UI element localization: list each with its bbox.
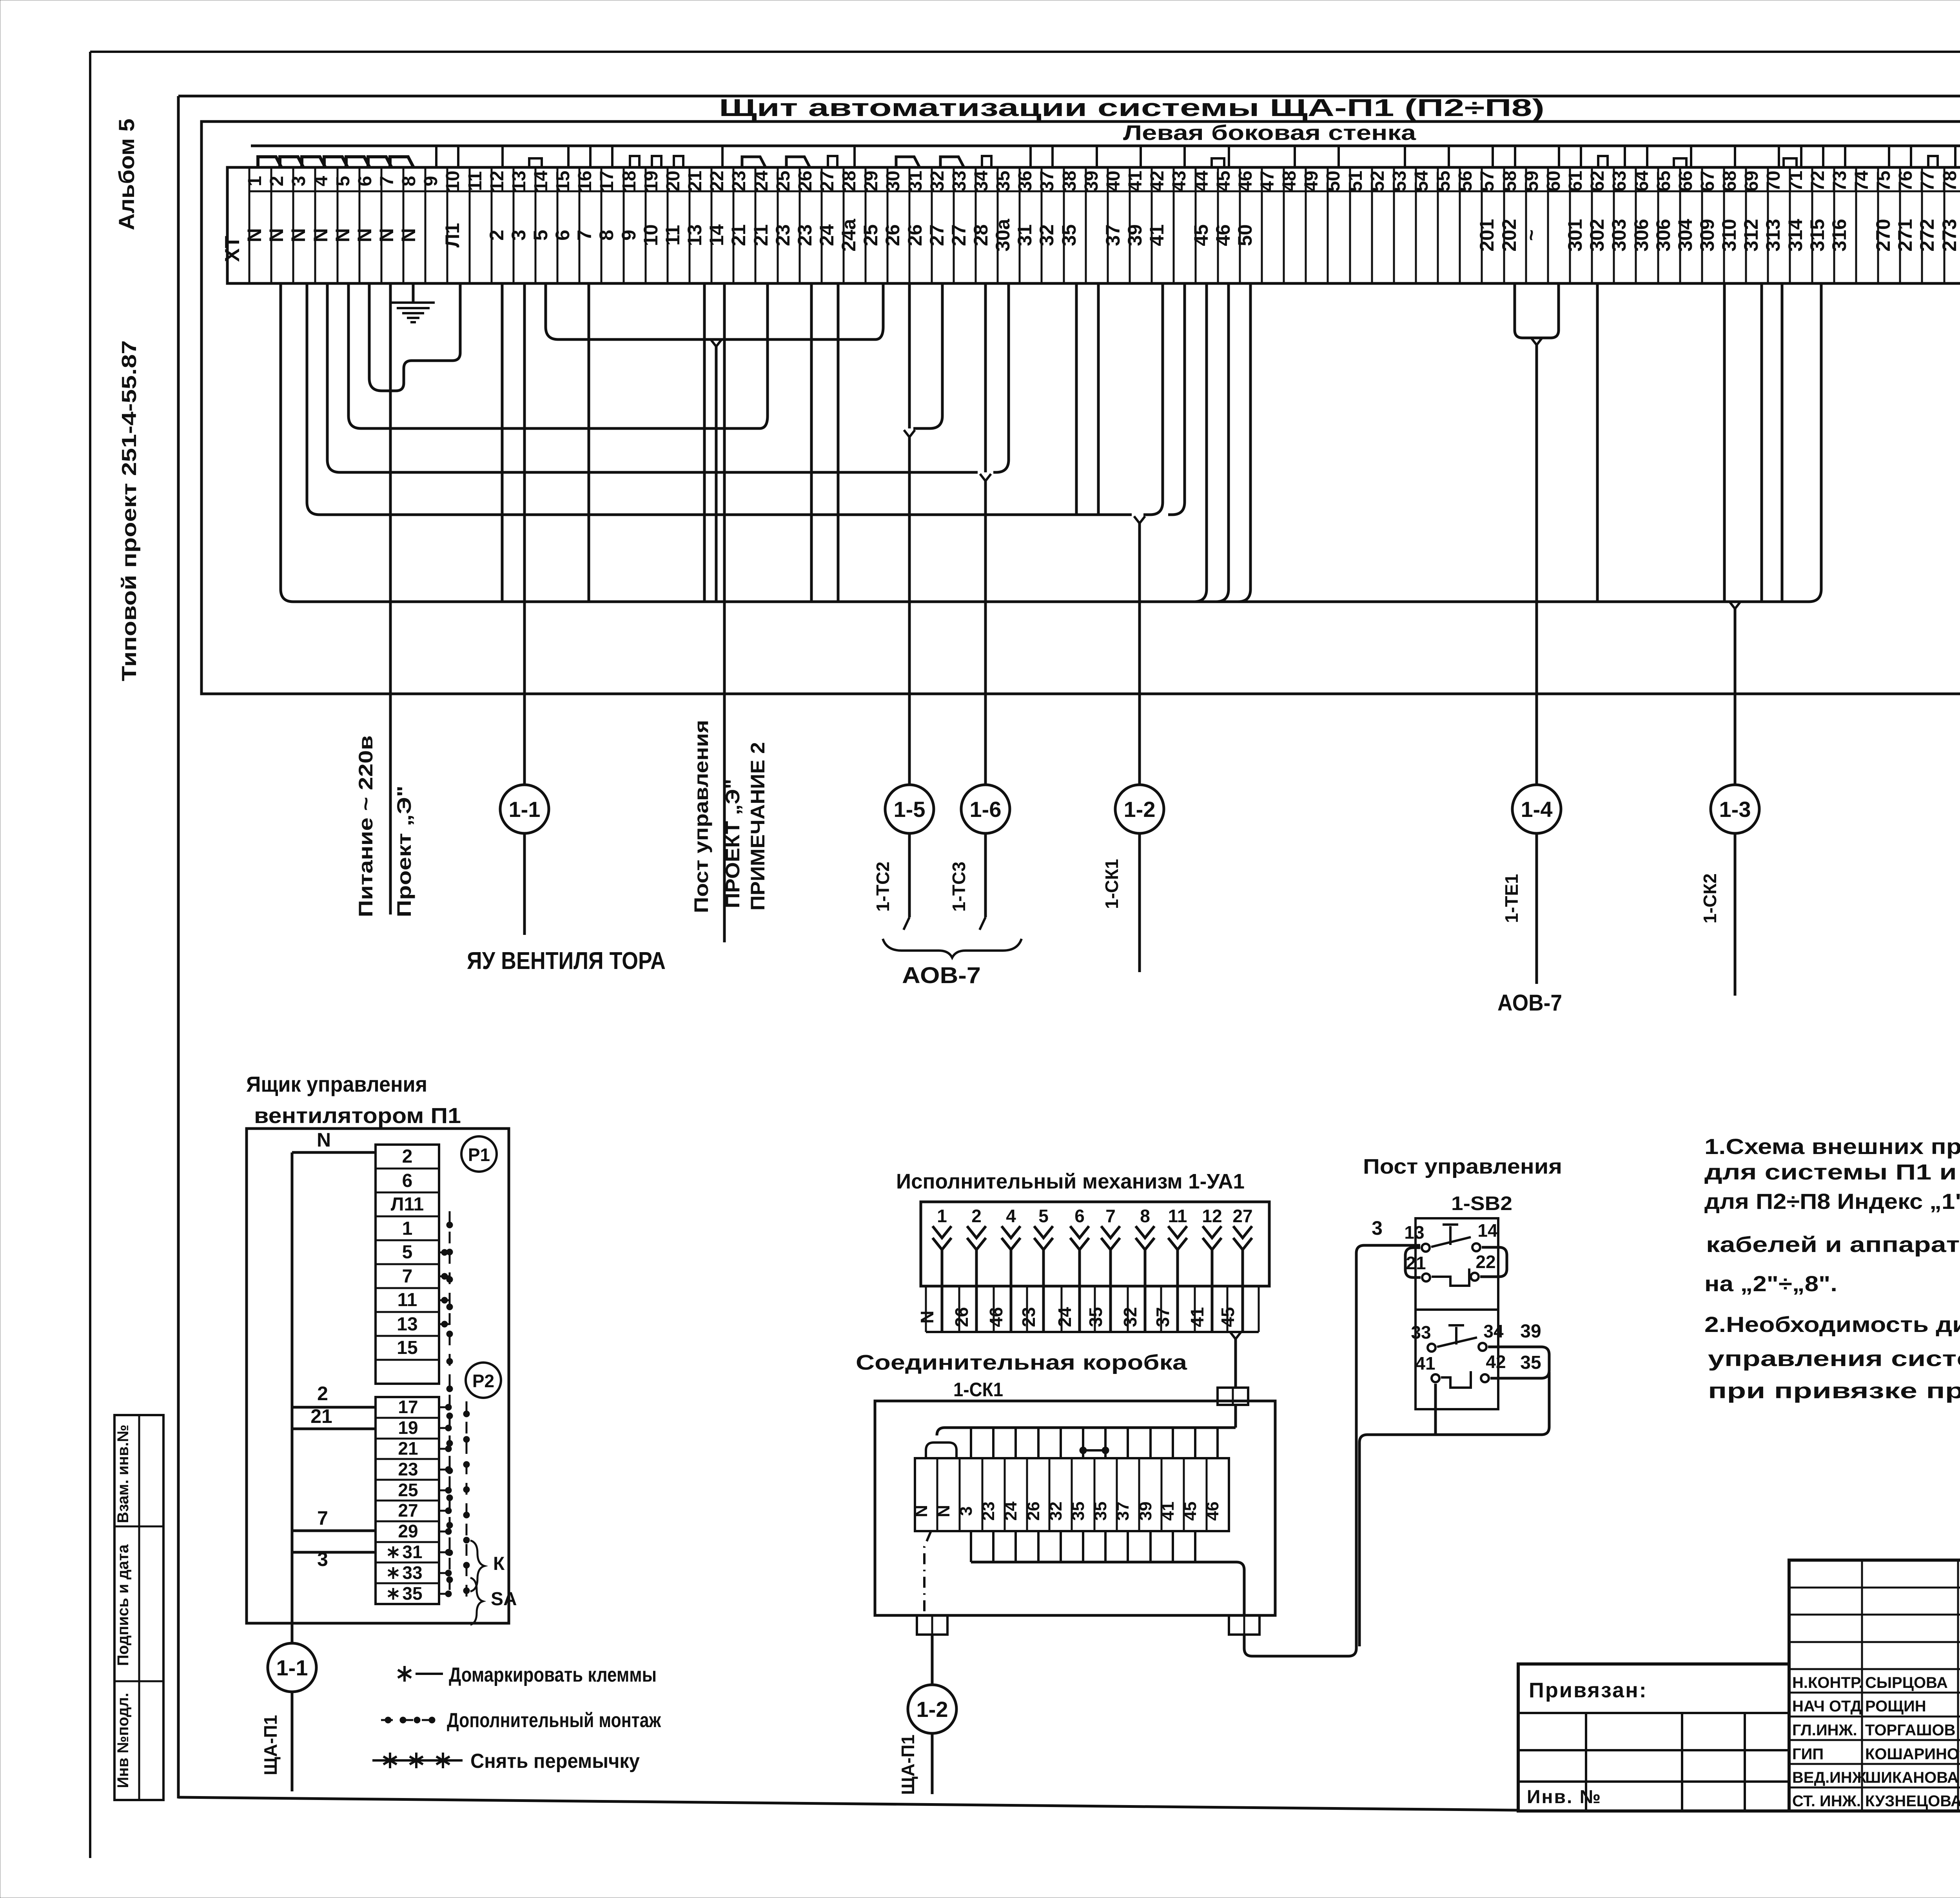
svg-text:Л11: Л11 <box>391 1194 424 1215</box>
brace and АОВ-7 under 1-ТС2/1-ТС3 <box>883 939 1022 958</box>
svg-text:27: 27 <box>948 224 970 246</box>
terminal XT:69 net 312 <box>1740 167 1768 283</box>
svg-text:59: 59 <box>1521 171 1542 191</box>
svg-text:11: 11 <box>662 225 684 246</box>
terminal XT:48 <box>1279 167 1306 283</box>
svg-text:26: 26 <box>951 1307 972 1327</box>
jumper links above terminals 1-8 <box>258 157 414 167</box>
svg-text:1-6: 1-6 <box>970 797 1002 822</box>
terminal XT:37 net 32 <box>1036 167 1064 283</box>
svg-text:N: N <box>376 228 397 242</box>
terminal XT:45 net 46 <box>1212 167 1240 283</box>
terminal XT:6 net N <box>354 167 381 283</box>
terminal XT:21 net 13 <box>684 167 711 283</box>
svg-text:270: 270 <box>1872 219 1894 251</box>
svg-text:~: ~ <box>1520 229 1542 241</box>
svg-text:13: 13 <box>509 171 530 191</box>
cable tails below circles <box>524 833 1735 996</box>
svg-text:N: N <box>354 228 376 242</box>
bus stubs to terminals <box>436 146 1960 167</box>
control cabinet box П1 <box>247 1129 509 1623</box>
terminal XT:28 net 24а <box>838 167 866 283</box>
cable circle 1-3 <box>1711 785 1759 833</box>
terminal XT:67 net 309 <box>1696 167 1724 283</box>
left margin stamp column (Взам.инв.№ / Подпись и дата / Инв №подл) <box>114 1415 163 1800</box>
svg-text:31: 31 <box>402 1542 422 1562</box>
svg-text:Снять перемычку: Снять перемычку <box>470 1750 640 1773</box>
svg-text:Исполнительный механизм 1-УА1: Исполнительный механизм 1-УА1 <box>896 1170 1245 1193</box>
svg-text:25: 25 <box>860 224 882 246</box>
svg-text:ГИП: ГИП <box>1792 1746 1824 1763</box>
svg-text:1-SВ2: 1-SВ2 <box>1451 1192 1512 1214</box>
svg-text:Инв. №: Инв. № <box>1527 1787 1602 1807</box>
svg-text:N: N <box>934 1505 953 1517</box>
svg-text:Р1: Р1 <box>468 1145 490 1165</box>
svg-text:3: 3 <box>1372 1217 1383 1239</box>
svg-text:42: 42 <box>1147 171 1168 191</box>
svg-text:2: 2 <box>486 230 508 241</box>
relay P1 terminal column <box>376 1145 439 1384</box>
svg-text:35: 35 <box>993 171 1014 191</box>
1-УА1 terminal label cells <box>917 1286 1259 1332</box>
svg-text:36: 36 <box>1015 171 1036 191</box>
terminal XT:13 net 3 <box>508 167 535 283</box>
legend: домаркировать клеммы <box>398 1664 657 1686</box>
terminal XT:27 net 24 <box>816 167 844 283</box>
terminal XT:74 <box>1851 167 1878 283</box>
svg-text:7: 7 <box>1105 1206 1116 1226</box>
svg-text:8: 8 <box>1140 1206 1150 1226</box>
svg-text:Ящик управления: Ящик управления <box>246 1072 427 1096</box>
svg-text:5: 5 <box>402 1242 413 1263</box>
lower cable circle 1-1 <box>268 1643 316 1692</box>
terminal XT:56 <box>1455 167 1482 283</box>
СК1 collector above strip <box>937 1428 1236 1435</box>
svg-text:Питание ~ 220в: Питание ~ 220в <box>355 735 377 917</box>
svg-text:24: 24 <box>1001 1501 1020 1521</box>
svg-text:21: 21 <box>398 1438 418 1459</box>
svg-text:N: N <box>310 228 332 242</box>
terminal XT:77 net 272 <box>1916 167 1944 283</box>
svg-text:25: 25 <box>398 1480 418 1500</box>
terminal XT:41 net 39 <box>1124 167 1152 283</box>
lower cable circle 1-2 <box>908 1685 956 1733</box>
terminal XT:51 <box>1345 167 1372 283</box>
terminal XT:34 net 28 <box>970 167 998 283</box>
svg-text:6: 6 <box>552 230 573 241</box>
svg-text:4: 4 <box>1006 1206 1016 1226</box>
svg-text:35: 35 <box>1069 1502 1088 1521</box>
svg-text:27: 27 <box>926 224 948 246</box>
svg-text:64: 64 <box>1632 171 1652 192</box>
terminal XT:3 net N <box>287 167 315 283</box>
svg-text:РОЩИН: РОЩИН <box>1865 1698 1926 1715</box>
content box: panel left side wall enclosure <box>201 122 1960 694</box>
svg-text:26: 26 <box>795 171 816 191</box>
terminal XT:36 net 31 <box>1014 167 1042 283</box>
terminal XT:62 net 302 <box>1586 167 1614 283</box>
svg-text:Р2: Р2 <box>472 1371 494 1391</box>
svg-text:43: 43 <box>1169 171 1190 191</box>
svg-text:45: 45 <box>1181 1502 1200 1521</box>
П-shaped jumpers above terminal pairs <box>529 158 1960 167</box>
svg-text:313: 313 <box>1762 219 1784 251</box>
svg-text:55: 55 <box>1433 171 1454 191</box>
wire 21 to 13 node <box>1405 1248 1421 1277</box>
relay designator P1 <box>461 1136 497 1172</box>
svg-text:10: 10 <box>443 171 463 191</box>
svg-text:9: 9 <box>421 176 441 187</box>
svg-text:28: 28 <box>970 224 992 246</box>
svg-text:N: N <box>287 228 309 242</box>
svg-text:ШИКАНОВА: ШИКАНОВА <box>1865 1769 1958 1786</box>
svg-text:47: 47 <box>1257 171 1278 191</box>
terminal XT:31 net 26 <box>904 167 932 283</box>
relay designator P2 <box>466 1363 501 1398</box>
svg-text:21: 21 <box>750 224 772 246</box>
terminal XT:4 net N <box>310 167 338 283</box>
svg-text:ВЕД.ИНЖ: ВЕД.ИНЖ <box>1792 1769 1867 1786</box>
svg-text:48: 48 <box>1279 171 1300 191</box>
terminal 32 curve into 1-5 junction <box>913 283 942 428</box>
terminal XT:9 <box>421 167 447 283</box>
svg-text:ПРИМЕЧАНИЕ 2: ПРИМЕЧАНИЕ 2 <box>747 742 769 911</box>
svg-text:5: 5 <box>1038 1206 1049 1226</box>
terminal XT:55 <box>1433 167 1460 283</box>
svg-text:5: 5 <box>530 230 552 241</box>
cable 1-6 riser <box>984 481 987 785</box>
svg-text:49: 49 <box>1301 171 1322 191</box>
svg-text:Домаркировать клеммы: Домаркировать клеммы <box>449 1664 657 1686</box>
terminal XT:61 net 301 <box>1564 167 1592 283</box>
svg-text:Проект „Э": Проект „Э" <box>393 786 415 917</box>
svg-text:Пост управления: Пост управления <box>1363 1155 1562 1178</box>
branch 2 <box>292 1406 376 1409</box>
svg-text:N: N <box>265 228 287 242</box>
terminal XT:39 <box>1081 167 1108 283</box>
wire 34 to 42 with nets 39/35 <box>1488 1321 1549 1378</box>
wire run F (y=1313) terminal 3 to 1-2 junction <box>307 283 1132 515</box>
svg-text:1-3: 1-3 <box>1719 797 1751 822</box>
svg-text:302: 302 <box>1586 219 1608 251</box>
svg-text:52: 52 <box>1367 171 1388 191</box>
СК1 bottom-right bushing <box>1229 1615 1259 1635</box>
cable circle 1-2 <box>1115 785 1164 833</box>
svg-text:Л1: Л1 <box>441 223 463 248</box>
СК1 stubs below cells <box>971 1531 1244 1615</box>
terminal XT:20 net 11 <box>662 167 690 283</box>
svg-text:24а: 24а <box>838 218 860 252</box>
svg-text:310: 310 <box>1718 219 1740 251</box>
internal panel wiring bus <box>251 145 1960 147</box>
terminal XT:15 net 6 <box>552 167 579 283</box>
svg-text:309: 309 <box>1696 219 1718 251</box>
svg-text:ЩА-П1: ЩА-П1 <box>260 1715 281 1775</box>
svg-text:14: 14 <box>531 171 552 192</box>
СК1 top bushing <box>1218 1388 1248 1405</box>
svg-text:314: 314 <box>1784 219 1806 252</box>
cable circle 1-4 <box>1512 785 1561 833</box>
svg-text:1.Схема внешних проводок дана: 1.Схема внешних проводок дана <box>1704 1134 1960 1159</box>
terminal XT:5 net N <box>332 167 359 283</box>
svg-text:3: 3 <box>956 1506 976 1516</box>
slanted jumper hooks between terminal pairs <box>742 157 964 167</box>
svg-text:39: 39 <box>1136 1502 1155 1521</box>
svg-text:К: К <box>493 1553 505 1574</box>
svg-text:306: 306 <box>1630 219 1652 251</box>
svg-text:Пост управления: Пост управления <box>690 720 712 913</box>
wire run E (y=1205) terminal 4 to 1-6 junction <box>327 283 978 472</box>
svg-text:7: 7 <box>317 1507 328 1529</box>
svg-text:56: 56 <box>1455 171 1476 191</box>
terminal XT:1 net N <box>243 167 271 283</box>
connection box 1-СК1 <box>875 1401 1275 1615</box>
svg-text:39: 39 <box>1520 1321 1541 1342</box>
terminal XT:75 net 270 <box>1872 167 1900 283</box>
wire run G (N net, y=1535) terminal 2 to terminal 72, feeds cable 1-3 <box>281 283 1821 602</box>
svg-text:23: 23 <box>398 1459 418 1479</box>
svg-text:1-2: 1-2 <box>1124 797 1156 822</box>
relay P2 terminal column <box>376 1397 439 1604</box>
svg-text:32: 32 <box>1120 1307 1140 1327</box>
svg-text:13: 13 <box>1404 1222 1424 1243</box>
svg-text:Щит автоматизации сист: Щит автоматизации системы ЩА-П1 (П2÷П8) <box>719 94 1544 122</box>
svg-text:11: 11 <box>465 171 486 191</box>
cable circle 1-6 <box>961 785 1010 833</box>
svg-text:Привязан:: Привязан: <box>1529 1678 1648 1702</box>
terminal XT:44 net 45 <box>1190 167 1218 283</box>
actuator 1-УА1 box <box>921 1202 1269 1286</box>
svg-text:27: 27 <box>1232 1206 1252 1226</box>
svg-text:34: 34 <box>971 171 992 192</box>
svg-text:34: 34 <box>1483 1321 1504 1341</box>
svg-text:Инв №подл.: Инв №подл. <box>114 1693 132 1788</box>
svg-text:27: 27 <box>398 1500 418 1521</box>
svg-text:301: 301 <box>1564 219 1586 251</box>
svg-text:26: 26 <box>904 224 926 246</box>
svg-text:N: N <box>317 1129 331 1151</box>
wire 14 to 22 <box>1480 1247 1507 1277</box>
wire to lower cable circle 1-1 <box>291 1623 294 1643</box>
svg-text:31: 31 <box>1014 224 1036 246</box>
terminal XT:52 <box>1367 167 1394 283</box>
svg-text:272: 272 <box>1916 219 1938 251</box>
terminal XT:25 net 23 <box>772 167 800 283</box>
svg-text:24: 24 <box>816 224 838 246</box>
svg-text:для системы П1 и аналогична: для системы П1 и аналогична <box>1704 1159 1960 1184</box>
svg-text:304: 304 <box>1674 219 1696 252</box>
terminal XT:59 net ~ <box>1520 167 1548 283</box>
svg-text:60: 60 <box>1543 171 1564 191</box>
svg-text:8: 8 <box>399 176 419 187</box>
svg-text:46: 46 <box>986 1307 1006 1327</box>
terminal 35 curve into 1-6 junction <box>993 283 1009 472</box>
svg-text:75: 75 <box>1873 171 1894 191</box>
terminal XT:29 net 25 <box>860 167 887 283</box>
link wire СК1 to 1-SB2 <box>1244 1245 1420 1656</box>
svg-text:29: 29 <box>398 1521 418 1541</box>
svg-text:6: 6 <box>355 176 376 187</box>
svg-text:37: 37 <box>1113 1502 1132 1521</box>
tail ЩА-П1 <box>931 1733 934 1794</box>
svg-text:315: 315 <box>1806 219 1828 251</box>
svg-text:201: 201 <box>1476 219 1498 251</box>
svg-text:19: 19 <box>641 171 662 191</box>
svg-text:316: 316 <box>1828 219 1850 251</box>
svg-text:62: 62 <box>1587 171 1608 191</box>
terminal XT:12 net 2 <box>486 167 514 283</box>
svg-text:ПРОЕКТ „Э": ПРОЕКТ „Э" <box>722 779 744 908</box>
svg-text:11: 11 <box>1168 1206 1187 1226</box>
K / SA braces <box>470 1541 517 1625</box>
svg-text:2.Необходимость дистанционног: 2.Необходимость дистанционного <box>1704 1312 1960 1337</box>
terminal XT:50 <box>1323 167 1350 283</box>
svg-text:3: 3 <box>508 230 530 241</box>
svg-text:72: 72 <box>1808 171 1828 191</box>
terminal XT:7 net N <box>376 167 403 283</box>
svg-text:3: 3 <box>289 176 309 187</box>
cable circle 1-1 <box>500 785 549 833</box>
title block: привязан box <box>1518 1664 1789 1811</box>
svg-text:SA: SA <box>491 1589 517 1609</box>
svg-text:20: 20 <box>663 171 684 191</box>
svg-text:46: 46 <box>1235 171 1256 191</box>
svg-text:управления системами уточня: управления системами уточняется <box>1708 1346 1960 1371</box>
cabinet internal N wire <box>292 1129 376 1623</box>
svg-text:24: 24 <box>1054 1307 1075 1327</box>
terminal XT:22 net 14 <box>706 167 733 283</box>
svg-text:19: 19 <box>398 1417 418 1438</box>
terminal XT:58 net 202 <box>1498 167 1526 283</box>
svg-text:46: 46 <box>1203 1502 1222 1521</box>
svg-text:61: 61 <box>1565 171 1586 191</box>
ground symbol <box>392 303 435 322</box>
svg-text:8: 8 <box>595 230 617 241</box>
terminal XT:10 net Л1 <box>441 167 470 283</box>
svg-text:46: 46 <box>1212 224 1234 246</box>
terminal XT:24 net 21 <box>750 167 778 283</box>
svg-text:23: 23 <box>729 171 750 191</box>
wire 41 drop <box>1434 1384 1437 1435</box>
branch drops joining run G <box>502 283 1782 785</box>
svg-text:33: 33 <box>1411 1322 1431 1343</box>
svg-text:271: 271 <box>1894 219 1916 251</box>
svg-text:5: 5 <box>333 176 354 187</box>
contact 21-22 <box>1406 1252 1495 1286</box>
legend: снять перемычку <box>372 1750 640 1773</box>
svg-text:54: 54 <box>1411 171 1432 192</box>
svg-text:1: 1 <box>245 176 265 187</box>
svg-text:13: 13 <box>684 224 706 246</box>
svg-text:30а: 30а <box>992 218 1014 252</box>
control post 1-SB2 box <box>1416 1218 1498 1409</box>
svg-text:Подпись и дата: Подпись и дата <box>114 1544 132 1666</box>
svg-text:ХТ: ХТ <box>221 236 244 262</box>
svg-text:303: 303 <box>1608 219 1630 251</box>
svg-text:7: 7 <box>573 230 595 241</box>
svg-text:1-1: 1-1 <box>509 797 541 822</box>
svg-text:КОШАРИНОВА: КОШАРИНОВА <box>1865 1746 1960 1763</box>
title block: signature table <box>1789 1560 1960 1811</box>
terminal 31 straight drop to 1-5 junction <box>908 283 911 428</box>
contact 13-14 <box>1404 1220 1498 1252</box>
svg-text:45: 45 <box>1218 1307 1238 1327</box>
svg-text:ГЛ.ИНЖ.: ГЛ.ИНЖ. <box>1792 1722 1857 1739</box>
terminal XT:60 <box>1543 167 1570 283</box>
branch 21 <box>292 1428 376 1430</box>
svg-text:21: 21 <box>685 171 706 191</box>
terminal XT:72 net 315 <box>1806 167 1834 283</box>
ground wire from terminal 8 <box>412 283 415 302</box>
svg-text:при привязке проекта.: при привязке проекта. <box>1708 1378 1960 1403</box>
svg-text:на „2"÷„8".: на „2"÷„8". <box>1704 1271 1837 1296</box>
svg-text:26: 26 <box>882 224 904 246</box>
terminal XT:18 net 9 <box>618 167 646 283</box>
svg-text:21: 21 <box>1406 1253 1426 1273</box>
svg-text:74: 74 <box>1851 171 1872 192</box>
svg-text:27: 27 <box>817 171 838 191</box>
terminal XT:40 net 37 <box>1102 167 1130 283</box>
terminal XT:8 net N <box>397 167 425 283</box>
svg-text:33: 33 <box>949 171 970 191</box>
svg-text:45: 45 <box>1213 171 1234 191</box>
terminal XT:68 net 310 <box>1718 167 1746 283</box>
svg-text:2: 2 <box>402 1146 413 1167</box>
svg-text:ЩА-П1: ЩА-П1 <box>898 1735 918 1795</box>
svg-text:Соединительная коробка: Соединительная коробка <box>856 1351 1187 1374</box>
terminal XT:30 net 26 <box>882 167 909 283</box>
svg-text:312: 312 <box>1740 219 1762 251</box>
svg-text:67: 67 <box>1697 171 1718 191</box>
notes text <box>1704 1134 1960 1403</box>
svg-text:6: 6 <box>402 1170 413 1191</box>
svg-text:73: 73 <box>1829 171 1850 191</box>
svg-text:51: 51 <box>1345 171 1366 191</box>
svg-text:41: 41 <box>1415 1353 1435 1374</box>
terminal XT:70 net 313 <box>1762 167 1790 283</box>
svg-text:22: 22 <box>707 171 728 191</box>
svg-text:6: 6 <box>1074 1206 1085 1226</box>
svg-text:3: 3 <box>317 1548 328 1570</box>
svg-text:44: 44 <box>1191 171 1212 192</box>
terminal 34 straight drop to 1-6 junction <box>984 283 987 472</box>
svg-text:23: 23 <box>979 1502 998 1521</box>
terminal XT:33 net 27 <box>948 167 976 283</box>
svg-text:1-4: 1-4 <box>1521 797 1553 822</box>
terminal XT:11 <box>465 167 492 283</box>
svg-text:41: 41 <box>1187 1307 1207 1327</box>
svg-text:N: N <box>332 228 354 242</box>
СК1 stubs above cells <box>926 1428 1218 1458</box>
branch 3 <box>292 1551 376 1554</box>
wires 201/202 join to cable 1-4 <box>1515 283 1559 785</box>
wire run A (y=866) terminal 14 to 29 with junction to G <box>546 283 883 339</box>
svg-text:58: 58 <box>1499 171 1520 191</box>
terminal XT:46 net 50 <box>1234 167 1262 283</box>
svg-text:35: 35 <box>1085 1307 1106 1327</box>
svg-text:НАЧ ОТД: НАЧ ОТД <box>1792 1698 1862 1715</box>
svg-text:вентилятором П1: вентилятором П1 <box>254 1103 461 1128</box>
svg-text:22: 22 <box>1475 1252 1495 1272</box>
svg-text:17: 17 <box>398 1397 418 1417</box>
terminal XT:32 net 27 <box>926 167 954 283</box>
terminal XT:71 net 314 <box>1784 167 1812 283</box>
svg-text:50: 50 <box>1323 171 1344 191</box>
terminal XT:16 net 7 <box>573 167 601 283</box>
wire run B (y=997) terminal 6 to terminal 10 <box>369 283 460 391</box>
45 wire to СК1 <box>1230 1332 1241 1388</box>
terminal XT:47 <box>1257 167 1284 283</box>
